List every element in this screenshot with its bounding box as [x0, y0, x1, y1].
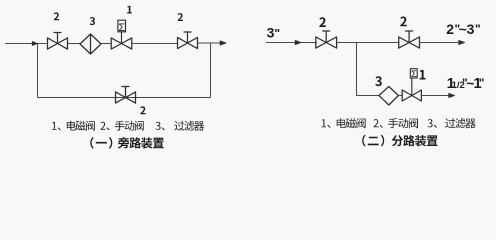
manual valve 2 (main outlet)	[399, 37, 420, 48]
solenoid valve 1 (branch: bowtie, stem, coil box)	[402, 90, 421, 101]
solenoid valve 1 (bowtie, stem, coil box)	[111, 38, 132, 49]
wire: branch horizontal line to filter	[356, 95, 379, 97]
manual valve 2 (right diagram inlet)	[316, 37, 337, 48]
left legend item 1: solenoid valve	[52, 121, 95, 131]
right title prefix: (2)	[362, 135, 384, 147]
right legend item 3: filter	[445, 118, 476, 128]
wire: outlet line	[198, 42, 223, 44]
svg-text:2"~3": 2"~3"	[446, 21, 480, 37]
wire: solenoid valve to right manual valve	[132, 43, 178, 45]
wire: bypass right vertical drop	[210, 43, 212, 98]
manual valve 2 (left)	[48, 38, 68, 49]
wire: valve to filter	[68, 43, 81, 45]
wire: valve to branch junction to second valve	[337, 42, 400, 44]
label 2 for outlet manual valve	[400, 17, 407, 27]
wire: main outlet line	[419, 42, 461, 44]
svg-text:3": 3"	[267, 24, 281, 40]
left legend item 3: filter	[174, 121, 204, 131]
wire: bypass left vertical drop	[37, 44, 39, 98]
left legend item 3 prefix	[156, 122, 165, 131]
label 2 for right manual valve	[178, 13, 183, 21]
label 2 for bypass valve	[140, 106, 145, 114]
label 1 for branch solenoid valve	[420, 70, 426, 80]
filter 3 diamond with center line	[80, 34, 101, 54]
label 2 for inlet manual valve	[319, 17, 326, 27]
svg-text:Σ: Σ	[411, 69, 417, 80]
wire: filter to branch solenoid valve	[399, 95, 403, 97]
right legend item 1: solenoid valve	[322, 118, 366, 128]
svg-text:Σ: Σ	[118, 22, 125, 34]
label 3 for branch filter	[375, 76, 382, 86]
right title: branch device	[392, 135, 438, 146]
branch outlet arrow	[449, 93, 455, 97]
manual valve 2 (right)	[178, 37, 198, 48]
bypass manual valve 2	[116, 92, 136, 103]
left title prefix: (1)	[90, 137, 112, 149]
wire: branch vertical drop	[356, 43, 358, 96]
label 3 for filter	[90, 17, 95, 25]
main outlet arrow	[459, 40, 465, 44]
left legend item 2: manual valve	[100, 121, 143, 131]
flow arrow on right inlet	[295, 40, 301, 44]
wire: bypass bottom line	[38, 97, 211, 99]
wire: left inlet line	[5, 43, 48, 45]
label 1 for solenoid valve	[127, 6, 132, 14]
wire: branch outlet line	[421, 95, 450, 97]
outlet arrow	[220, 41, 226, 45]
wire: filter to solenoid valve	[101, 43, 112, 45]
svg-text:11/2"~1": 11/2"~1"	[447, 75, 485, 92]
right legend item 2: manual valve	[373, 118, 418, 128]
wire: right diagram inlet	[266, 42, 317, 44]
filter 3 diamond (branch)	[379, 87, 399, 106]
flow arrow on inlet	[32, 42, 37, 46]
label 2 for left manual valve	[54, 12, 59, 20]
right legend item 3 prefix	[427, 119, 437, 128]
left title: bypass device	[118, 137, 164, 149]
